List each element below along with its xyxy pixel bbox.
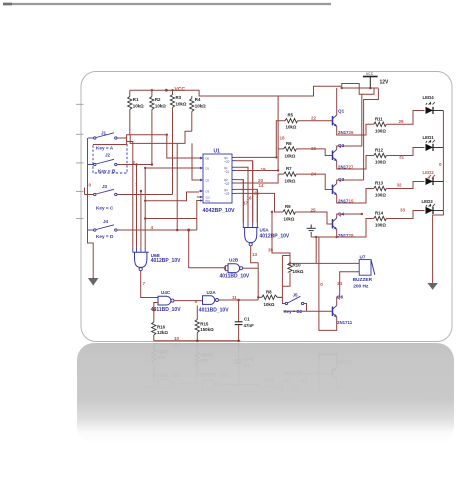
svg-text:10kΩ: 10kΩ (155, 104, 166, 109)
dashed selection box around J1 J2 (93, 145, 127, 174)
resistor R9 (283, 204, 333, 224)
resistor R4 (190, 96, 207, 131)
transistor Q6 (333, 295, 353, 326)
svg-text:~Q3: ~Q3 (224, 192, 230, 196)
svg-text:R4: R4 (195, 97, 201, 102)
svg-text:12kΩ: 12kΩ (157, 330, 168, 335)
wire mesh keypad to U1 (94, 131, 199, 230)
svg-text:J5: J5 (293, 292, 299, 297)
svg-text:4012BP_10V: 4012BP_10V (151, 258, 181, 264)
svg-text:Key = A: Key = A (96, 146, 114, 151)
reflection of card below (77, 342, 454, 488)
svg-text:R13: R13 (375, 181, 384, 186)
net 2 label (133, 160, 136, 165)
svg-text:10kΩ: 10kΩ (286, 125, 297, 130)
svg-text:2N1711: 2N1711 (337, 320, 353, 325)
wire U6B input risers (127, 142, 146, 248)
svg-text:100Ω: 100Ω (375, 160, 386, 165)
switch J1 (88, 131, 120, 151)
net 33 label (400, 208, 406, 213)
node dot C1 top (237, 299, 240, 302)
svg-text:U2B: U2B (229, 258, 239, 263)
svg-text:10kΩ: 10kΩ (285, 154, 296, 159)
svg-text:100Ω: 100Ω (375, 129, 386, 134)
svg-text:R15: R15 (200, 322, 209, 327)
svg-text:9: 9 (195, 299, 198, 304)
svg-text:4011BD_10V: 4011BD_10V (220, 274, 250, 280)
pin stubs U5A inputs (243, 223, 257, 228)
wire left ground rail (85, 138, 94, 278)
net 19 label (261, 167, 267, 172)
node dots transistor column (336, 213, 363, 238)
svg-text:4011BD_10V: 4011BD_10V (199, 308, 229, 314)
svg-text:R11: R11 (375, 116, 383, 121)
wire U1 output mesh (236, 96, 285, 223)
net 35 wire R10 feed (272, 212, 290, 263)
buzzer U7 (353, 255, 375, 290)
svg-text:100Ω: 100Ω (375, 193, 386, 198)
net 14 label (259, 183, 265, 188)
resistor R16 (152, 322, 169, 341)
svg-text:BUZZER: BUZZER (353, 277, 373, 283)
ruler tick marks on left card edge (76, 104, 84, 218)
net 0 label right (439, 162, 442, 167)
resistor R2 (150, 90, 167, 164)
svg-text:D0: D0 (206, 157, 210, 161)
net 32 label (397, 183, 403, 188)
wire J5 to Q6 base (284, 304, 333, 312)
wire VCC rail top (130, 86, 342, 96)
svg-text:200 Hz: 200 Hz (353, 284, 369, 290)
wire LED cathode rail (433, 111, 444, 284)
resistor R3 (170, 90, 187, 194)
resistor R12 (374, 148, 425, 165)
svg-text:~Q2: ~Q2 (224, 182, 230, 186)
net 7 label (143, 281, 146, 286)
wire 12V rail jogs (341, 84, 379, 181)
svg-text:R7: R7 (286, 166, 292, 171)
node dots U1 mesh (275, 156, 279, 172)
svg-text:LED2: LED2 (423, 170, 435, 175)
svg-text:R5: R5 (288, 113, 294, 118)
wire CLK POL feeds (145, 197, 199, 230)
net 20 label (258, 178, 264, 183)
wire U2A output net 11 (219, 299, 259, 301)
transistor Q3 (333, 177, 354, 204)
svg-text:33: 33 (400, 208, 406, 213)
svg-text:U5A: U5A (260, 228, 270, 233)
svg-text:10kΩ: 10kΩ (293, 269, 304, 274)
wire U2B output (243, 267, 259, 269)
switch J3 (88, 184, 117, 211)
svg-text:10kΩ: 10kΩ (264, 302, 275, 307)
svg-text:VCC: VCC (366, 72, 374, 76)
net 11 label (232, 295, 237, 300)
svg-text:10kΩ: 10kΩ (284, 217, 295, 222)
svg-text:23: 23 (311, 146, 317, 151)
NAND U6B vertical gate (133, 252, 181, 270)
svg-text:~Q1: ~Q1 (224, 170, 230, 174)
svg-text:~Q0: ~Q0 (224, 160, 230, 164)
svg-text:22: 22 (311, 116, 317, 121)
svg-text:24: 24 (311, 171, 317, 176)
net 22 label (311, 116, 317, 121)
wire Q1 collector emitter (337, 88, 374, 135)
op-amp U1 4042BP latch (203, 149, 235, 215)
net 18 label (280, 136, 286, 141)
svg-text:D2: D2 (206, 179, 210, 183)
net 0 label mid (320, 282, 323, 287)
net 23 label (311, 146, 317, 151)
pin stubs U1 right (232, 157, 236, 193)
svg-text:LED1: LED1 (423, 135, 435, 140)
svg-text:10kΩ: 10kΩ (195, 104, 206, 109)
wire Q2 collector emitter (337, 94, 374, 169)
svg-text:0: 0 (439, 162, 442, 167)
svg-text:Key = D: Key = D (96, 234, 114, 239)
resistor R7 (284, 166, 333, 189)
svg-text:35: 35 (268, 247, 274, 252)
switch J4 (88, 219, 117, 239)
svg-text:LED4: LED4 (423, 95, 435, 100)
svg-text:R9: R9 (285, 204, 291, 209)
NAND U2A gate (199, 290, 229, 313)
svg-text:18: 18 (280, 136, 286, 141)
NAND U5A vertical gate (243, 228, 290, 246)
svg-text:150kΩ: 150kΩ (200, 327, 214, 332)
net 0 label left (89, 183, 92, 188)
svg-text:D3: D3 (206, 190, 210, 194)
wire R10 to buzzer top (290, 262, 359, 264)
node VCC junctions (151, 89, 174, 92)
svg-text:4: 4 (151, 225, 154, 230)
svg-text:34: 34 (337, 281, 343, 286)
node dots bottom rail (196, 340, 240, 343)
wire U5A input risers (243, 161, 257, 223)
svg-text:47nF: 47nF (244, 323, 255, 328)
svg-text:31: 31 (399, 155, 405, 160)
net 10 label (174, 336, 180, 341)
wire U4C output net 9 (174, 300, 203, 302)
net 29 label (399, 119, 405, 124)
svg-text:J3: J3 (102, 184, 108, 189)
pin stubs U6B inputs (133, 247, 145, 252)
wire bottom rail net 10 (154, 340, 241, 342)
LED LED2 lit arrows red (423, 170, 444, 185)
svg-text:R16: R16 (157, 325, 166, 330)
resistor R5 (285, 113, 333, 130)
node dot net35 (271, 211, 273, 213)
svg-text:21: 21 (254, 191, 260, 196)
svg-text:10kΩ: 10kΩ (176, 102, 187, 107)
svg-text:10kΩ: 10kΩ (285, 179, 296, 184)
transistor Q4 (333, 212, 354, 239)
node junction dots keypad mesh (144, 134, 179, 232)
svg-text:R1: R1 (133, 97, 139, 102)
net 13 label (252, 252, 258, 257)
svg-text:U7: U7 (360, 255, 366, 260)
svg-text:2N17: 2N17 (338, 130, 349, 135)
capacitor C1 (235, 300, 254, 341)
node 12V junctions (341, 87, 372, 90)
LED LED1 (423, 135, 444, 151)
svg-text:Key = C: Key = C (96, 206, 114, 211)
node dot buzzer line (289, 262, 292, 265)
resistor R6 (284, 141, 333, 159)
net 34 label (337, 281, 343, 286)
resistor R11 (374, 111, 425, 134)
LED LED3 (422, 199, 444, 214)
svg-text:R3: R3 (176, 95, 182, 100)
svg-text:R6: R6 (286, 141, 292, 146)
svg-text:C1: C1 (244, 317, 250, 322)
node dot (187, 229, 190, 232)
svg-text:POL: POL (206, 201, 211, 203)
ground arrow left (88, 278, 99, 286)
svg-text:D1: D1 (206, 167, 210, 171)
net 21 label (254, 191, 260, 196)
resistor R10 (288, 263, 304, 274)
wire net 0 riser pair (315, 237, 317, 263)
svg-text:CLK: CLK (206, 197, 211, 199)
net 16 label (247, 196, 253, 201)
switch J2 (88, 153, 117, 174)
wire U4C lower input from R16 node (154, 303, 158, 323)
net 24 label (311, 171, 317, 176)
net 1 label (135, 182, 138, 187)
NAND U2B gate (220, 258, 250, 280)
svg-text:R14: R14 (375, 211, 384, 216)
resistor R8 (258, 290, 282, 307)
wire U6B output net 7 (141, 271, 158, 298)
svg-text:R2: R2 (155, 97, 161, 102)
svg-text:U2A: U2A (207, 290, 217, 295)
svg-text:29: 29 (399, 119, 405, 124)
svg-text:11: 11 (232, 295, 237, 300)
wire Q4 collector emitter (311, 214, 374, 237)
card (white rounded panel) (81, 72, 452, 342)
resistor R14 (374, 211, 425, 228)
net 25 label (311, 208, 317, 213)
svg-text:J2: J2 (105, 153, 111, 158)
wire net vertical to R8 row (257, 263, 259, 300)
ground arrow right (427, 283, 437, 290)
switch J5 (284, 292, 304, 314)
svg-text:4012BP_10V: 4012BP_10V (260, 233, 290, 239)
wire Q6 collector to buzzer (337, 272, 360, 306)
LED LED4 (423, 95, 444, 114)
svg-text:25: 25 (311, 208, 317, 213)
net 4 label (151, 225, 154, 230)
resistor R15 (195, 306, 214, 341)
ground bars under Q4 (307, 225, 316, 233)
node dot on label (152, 308, 155, 311)
svg-text:Q1: Q1 (338, 109, 345, 114)
net 35 label (268, 247, 274, 252)
svg-text:R8: R8 (266, 290, 272, 295)
svg-text:LED3: LED3 (422, 199, 434, 204)
transistor Q2 (333, 143, 354, 170)
svg-text:J4: J4 (103, 219, 109, 224)
net 17 label (243, 201, 249, 206)
top gray rule line (3, 3, 331, 5)
svg-text:7: 7 (143, 281, 146, 286)
node dot R8 left (257, 296, 259, 298)
wire Q3 collector emitter (337, 180, 374, 203)
svg-text:19: 19 (261, 167, 267, 172)
svg-text:R12: R12 (375, 148, 384, 153)
wire J5 box loop (282, 256, 290, 304)
svg-text:U6B: U6B (151, 253, 161, 258)
VCC net label (175, 87, 186, 93)
wire J4 net to U2B inputs (189, 230, 226, 271)
svg-text:0: 0 (320, 282, 323, 287)
svg-text:12V: 12V (380, 80, 390, 86)
resistor R1 (128, 90, 145, 135)
wire U5A output net 13 (251, 246, 259, 263)
pin stubs U1 left with arrows (198, 158, 203, 201)
node dots U6B risers (135, 163, 146, 219)
wire Q6 emitter to net 0 (319, 237, 337, 330)
net 9 label (195, 299, 198, 304)
svg-text:U4C: U4C (161, 290, 171, 295)
NAND U4C gate (151, 290, 181, 313)
svg-text:10kΩ: 10kΩ (133, 104, 144, 109)
svg-text:10: 10 (174, 336, 180, 341)
svg-text:4042BP_10V: 4042BP_10V (203, 208, 235, 214)
resistor R13 (374, 181, 425, 198)
transistor Q1 (333, 109, 354, 136)
svg-text:13: 13 (252, 252, 258, 257)
svg-text:0: 0 (89, 183, 92, 188)
svg-text:100Ω: 100Ω (375, 223, 386, 228)
net 31 label (399, 155, 405, 160)
svg-text:26: 26 (349, 130, 354, 135)
12V supply symbol (363, 72, 389, 88)
wire ground stub to emitter rail (310, 234, 312, 238)
svg-text:14: 14 (259, 183, 265, 188)
svg-text:32: 32 (397, 183, 403, 188)
